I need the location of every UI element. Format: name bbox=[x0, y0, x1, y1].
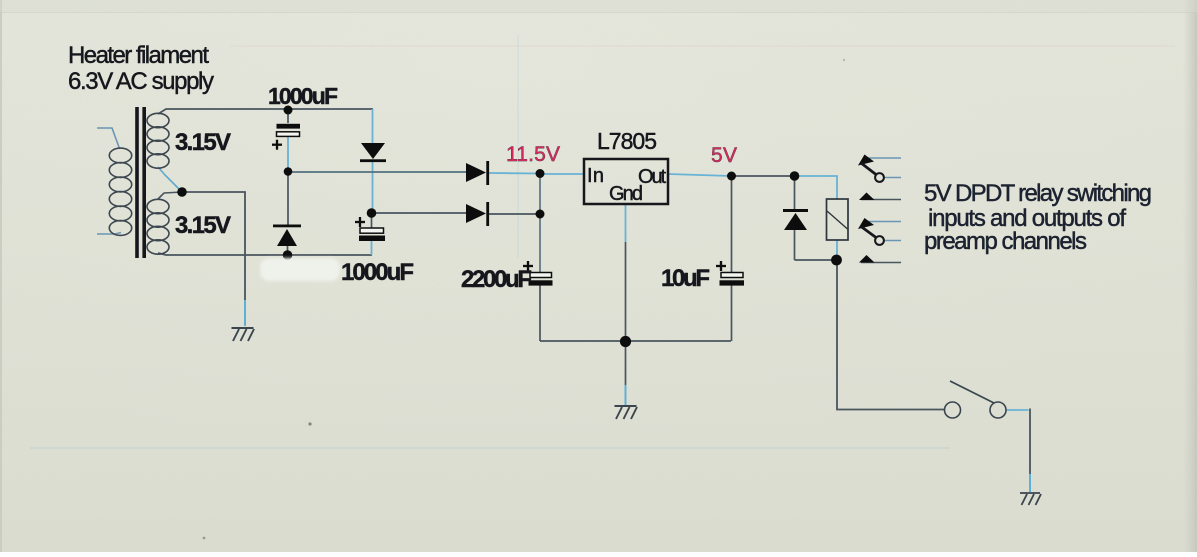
svg-text:2200uF: 2200uF bbox=[461, 266, 532, 293]
svg-text:Gnd: Gnd bbox=[609, 183, 643, 205]
svg-text:5V: 5V bbox=[711, 144, 737, 167]
svg-text:preamp channels: preamp channels bbox=[924, 228, 1087, 255]
svg-text:3.15V: 3.15V bbox=[175, 129, 231, 156]
svg-text:5V DPDT relay switching: 5V DPDT relay switching bbox=[924, 180, 1152, 207]
svg-text:1000uF: 1000uF bbox=[268, 83, 338, 109]
svg-text:11.5V: 11.5V bbox=[506, 143, 560, 166]
svg-text:3.15V: 3.15V bbox=[175, 212, 231, 239]
svg-text:In: In bbox=[587, 165, 604, 187]
svg-text:1000uF: 1000uF bbox=[341, 259, 414, 286]
svg-text:6.3V AC supply: 6.3V AC supply bbox=[68, 68, 214, 95]
svg-text:Heater filament: Heater filament bbox=[68, 42, 209, 69]
svg-text:L7805: L7805 bbox=[597, 128, 657, 154]
svg-text:10uF: 10uF bbox=[661, 265, 710, 292]
